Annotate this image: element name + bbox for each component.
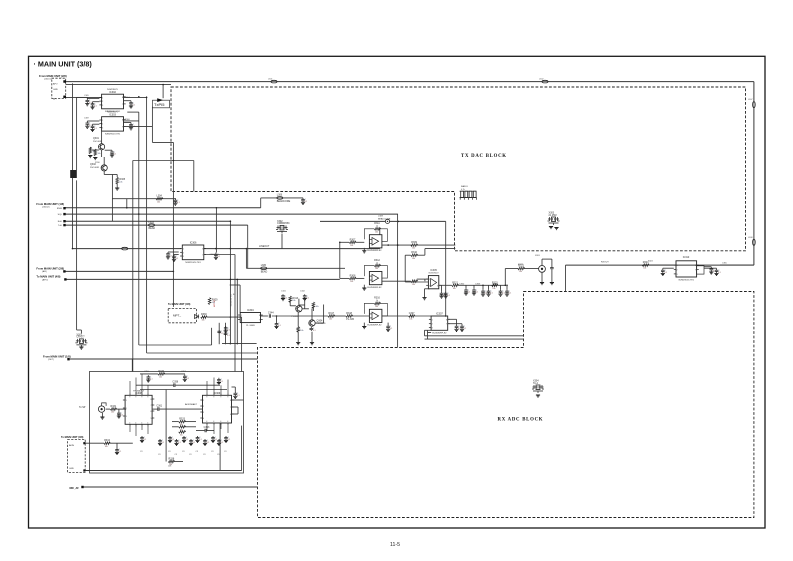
svg-text:Q304: Q304 [317,320,324,323]
svg-text:0.1: 0.1 [94,105,97,107]
svg-text:TA31136FNG: TA31136FNG [230,294,233,307]
svg-text:0.1: 0.1 [490,293,493,295]
svg-text:1: 1 [203,400,204,402]
svg-text:1k: 1k [376,300,378,302]
svg-text:IC306: IC306 [190,242,197,245]
svg-text:0.1: 0.1 [121,415,124,417]
svg-text:10k: 10k [292,300,295,302]
svg-text:L305: L305 [261,264,267,267]
svg-text:10k: 10k [180,435,183,437]
svg-text:BEADCORE: BEADCORE [277,200,291,203]
svg-text:RXOUT: RXOUT [601,262,609,264]
svg-text:From MAIN UNIT (1/8): From MAIN UNIT (1/8) [43,355,71,359]
svg-text:To MAIN UNIT (4/8): To MAIN UNIT (4/8) [168,303,190,306]
svg-text:0.1: 0.1 [502,293,505,295]
svg-text:R333: R333 [179,418,185,421]
svg-text:R330: R330 [201,313,207,316]
svg-text:2SC4081: 2SC4081 [90,167,100,169]
svg-text:3: 3 [183,256,184,258]
svg-text:BU4580RF-E2: BU4580RF-E2 [367,287,382,289]
svg-text:R321: R321 [452,281,458,284]
svg-text:9: 9 [147,397,148,399]
svg-text:C3: C3 [203,454,205,456]
svg-text:· MAIN UNIT (3/8): · MAIN UNIT (3/8) [34,59,93,68]
svg-text:0.1: 0.1 [114,154,117,156]
svg-text:R310: R310 [411,251,417,254]
svg-text:4: 4 [135,423,136,425]
svg-text:0.1: 0.1 [186,439,189,441]
svg-text:0.1: 0.1 [227,335,230,337]
svg-text:3: 3 [102,105,103,107]
svg-text:0.1: 0.1 [464,328,467,330]
svg-text:R307: R307 [350,238,356,241]
svg-text:9: 9 [129,397,130,399]
svg-text:0.1: 0.1 [221,442,224,444]
svg-text:2: 2 [677,270,678,272]
svg-text:1k: 1k [376,262,378,264]
svg-text:0.1: 0.1 [313,330,316,332]
svg-text:0.1: 0.1 [207,442,210,444]
svg-text:MPT_: MPT_ [173,314,181,318]
svg-text:0.1: 0.1 [221,381,224,383]
svg-text:GND: GND [53,89,58,91]
svg-text:AFI: AFI [53,98,57,101]
svg-text:0.1: 0.1 [186,378,189,380]
svg-text:CR-677: CR-677 [76,336,85,339]
svg-text:10k: 10k [519,271,522,273]
svg-text:AFO: AFO [53,83,58,86]
svg-text:10k: 10k [159,377,162,379]
svg-text:L303: L303 [149,221,155,224]
svg-text:10k: 10k [412,248,415,250]
svg-text:7: 7 [122,126,123,128]
svg-text:8: 8 [437,285,438,287]
svg-text:3: 3 [126,416,127,418]
svg-text:0.1: 0.1 [278,325,281,327]
svg-text:10k: 10k [119,181,122,183]
svg-text:10k: 10k [409,319,412,321]
svg-text:CDBM455C: CDBM455C [277,222,290,225]
svg-text:0.1: 0.1 [176,258,179,260]
svg-text:10k: 10k [350,245,353,247]
svg-text:6: 6 [151,411,152,413]
svg-text:L304: L304 [157,195,163,198]
svg-text:R309: R309 [411,241,417,244]
svg-text:0.1: 0.1 [94,128,97,130]
svg-text:C3: C3 [189,454,191,456]
svg-text:C3: C3 [175,454,177,456]
svg-text:0.1: 0.1 [170,255,173,257]
svg-text:C344: C344 [268,311,274,314]
svg-text:4: 4 [147,423,148,425]
svg-text:4: 4 [213,421,214,423]
svg-text:7: 7 [259,320,260,322]
svg-text:BEADCORE: BEADCORE [378,217,391,220]
svg-text:0.1: 0.1 [162,442,165,444]
svg-text:0.1: 0.1 [447,295,450,297]
svg-text:NJM2902V-TE1: NJM2902V-TE1 [679,279,695,281]
svg-text:1: 1 [429,279,430,281]
svg-text:IC304: IC304 [247,309,254,312]
svg-text:1: 1 [102,98,103,100]
svg-text:10k: 10k [202,320,205,322]
svg-text:From MAIN UNIT (2/8): From MAIN UNIT (2/8) [36,266,64,270]
svg-text:R318: R318 [346,312,352,315]
svg-text:TxPI5: TxPI5 [154,102,165,107]
svg-text:21.25M: 21.25M [549,214,557,217]
svg-text:C3: C3 [182,451,184,453]
svg-text:2: 2 [432,324,433,326]
svg-text:2: 2 [203,406,204,408]
svg-text:PL-340B: PL-340B [246,325,255,327]
svg-text:(DET): (DET) [48,359,54,361]
svg-text:9: 9 [206,397,207,399]
svg-text:10k: 10k [453,288,456,290]
svg-text:IC302: IC302 [109,91,116,94]
svg-text:10k: 10k [643,268,646,270]
svg-text:5: 5 [151,418,152,420]
svg-text:8: 8 [446,319,447,321]
svg-text:4: 4 [227,421,228,423]
svg-text:0.1: 0.1 [237,395,240,397]
svg-text:BU4580RF-E2: BU4580RF-E2 [367,250,382,252]
svg-text:10k: 10k [316,306,319,308]
svg-text:1k: 1k [376,226,378,228]
svg-text:10k: 10k [300,330,303,332]
svg-text:9: 9 [141,397,142,399]
svg-text:7: 7 [230,407,231,409]
svg-text:9: 9 [135,397,136,399]
svg-text:0.1: 0.1 [119,451,122,453]
svg-text:To MAIN UNIT (4/8): To MAIN UNIT (4/8) [36,275,60,279]
svg-text:8: 8 [151,399,152,401]
svg-text:C3: C3 [158,454,160,456]
svg-text:MPT 8V: MPT 8V [214,299,216,307]
svg-text:0.1: 0.1 [215,439,218,441]
svg-text:10k: 10k [157,201,160,203]
svg-text:TxD: TxD [58,225,62,227]
svg-text:9: 9 [227,397,228,399]
svg-text:C354: C354 [492,284,498,286]
svg-text:C347: C347 [409,312,415,315]
svg-text:0.1: 0.1 [305,201,308,203]
svg-text:R331: R331 [111,405,117,408]
svg-text:IC308: IC308 [135,392,142,395]
svg-text:10k: 10k [329,319,332,321]
svg-text:C361: C361 [156,405,162,408]
svg-text:2: 2 [102,101,103,103]
svg-text:C3: C3 [211,451,213,453]
svg-text:8: 8 [230,400,231,402]
svg-text:IC310: IC310 [683,256,690,259]
svg-text:To MAIN UNIT (4/8): To MAIN UNIT (4/8) [61,436,83,439]
svg-text:NJM2902V: NJM2902V [107,89,118,91]
svg-text:NJM2100V-TE1: NJM2100V-TE1 [185,262,201,264]
svg-text:8: 8 [202,249,203,251]
svg-text:4: 4 [141,423,142,425]
svg-text:4: 4 [206,421,207,423]
svg-text:C3: C3 [224,451,226,453]
svg-text:0.1: 0.1 [221,333,224,335]
svg-text:J301: J301 [535,255,541,257]
svg-text:C353: C353 [475,284,481,286]
svg-text:R308: R308 [350,274,356,277]
svg-text:1: 1 [183,249,184,251]
svg-text:From MAIN UNIT (1/8): From MAIN UNIT (1/8) [36,202,64,206]
svg-text:L306: L306 [277,194,283,197]
svg-text:9: 9 [213,397,214,399]
svg-text:10k: 10k [412,284,415,286]
svg-text:4.7k: 4.7k [461,189,465,191]
svg-text:R334: R334 [104,439,110,442]
svg-text:7: 7 [151,405,152,407]
svg-text:10k: 10k [492,288,495,290]
svg-text:0.1: 0.1 [227,329,230,331]
svg-text:2: 2 [241,320,242,322]
svg-text:8: 8 [695,265,696,267]
svg-text:10k: 10k [375,268,378,270]
svg-text:7: 7 [446,324,447,326]
svg-text:BU4580RF-E2: BU4580RF-E2 [432,333,447,335]
svg-text:0.1: 0.1 [476,292,479,294]
svg-text:4: 4 [203,418,204,420]
svg-text:10k: 10k [375,231,378,233]
svg-text:NJM2902V-TE1: NJM2902V-TE1 [105,134,121,136]
svg-text:0.1: 0.1 [199,439,202,441]
svg-text:2: 2 [183,252,184,254]
svg-text:IC307: IC307 [436,313,443,316]
svg-text:0.1: 0.1 [172,439,175,441]
svg-text:L309: L309 [378,216,384,218]
svg-text:BEAD: BEAD [261,270,268,273]
svg-text:BU4580RF-E2: BU4580RF-E2 [367,325,382,327]
svg-text:9: 9 [220,397,221,399]
svg-text:10k: 10k [98,153,101,155]
svg-text:1: 1 [241,315,242,317]
svg-text:IC309: IC309 [214,392,221,395]
svg-text:Q301: Q301 [93,137,100,140]
svg-text:3: 3 [203,412,204,414]
svg-text:BEAD: BEAD [149,227,156,230]
svg-text:TX DAC BLOCK: TX DAC BLOCK [461,154,507,159]
svg-text:2: 2 [126,408,127,410]
svg-text:1: 1 [677,265,678,267]
svg-text:7: 7 [695,270,696,272]
svg-text:C3: C3 [140,451,142,453]
svg-text:0.1: 0.1 [177,202,180,204]
svg-text:10k: 10k [350,281,353,283]
svg-text:C3: C3 [217,454,219,456]
svg-text:(J3202): (J3202) [42,207,50,209]
svg-text:0.1: 0.1 [718,272,721,274]
svg-text:TA-2: TA-2 [533,382,539,385]
svg-text:0.1: 0.1 [390,328,393,330]
svg-text:0.1: 0.1 [193,442,196,444]
svg-text:0.1: 0.1 [133,104,136,106]
svg-text:0.1: 0.1 [509,293,512,295]
svg-text:PL-305: PL-305 [346,318,354,321]
svg-text:C352: C352 [459,284,465,286]
svg-text:MIC_AF: MIC_AF [70,487,80,490]
svg-text:(J3201): (J3201) [44,79,52,81]
svg-text:RX ADC BLOCK: RX ADC BLOCK [498,418,544,423]
svg-text:10k: 10k [111,412,114,414]
svg-text:AFIN: AFIN [69,444,74,447]
svg-text:(AFI): (AFI) [42,270,47,273]
svg-text:0.1: 0.1 [468,292,471,294]
svg-text:1: 1 [126,400,127,402]
svg-text:R322: R322 [518,264,524,266]
svg-text:3: 3 [432,328,433,330]
svg-text:11-5: 11-5 [390,542,400,548]
svg-text:0.1: 0.1 [144,439,147,441]
svg-text:RSSI: RSSI [57,208,62,210]
svg-text:0.1: 0.1 [664,272,667,274]
svg-text:8: 8 [122,97,123,99]
svg-text:IC305: IC305 [430,269,437,272]
svg-text:1: 1 [102,120,103,122]
svg-text:10k: 10k [375,306,378,308]
svg-text:R338: R338 [169,458,175,461]
svg-text:IC303: IC303 [109,113,116,116]
svg-text:7: 7 [202,255,203,257]
svg-text:GND: GND [69,468,74,470]
svg-text:8: 8 [122,119,123,121]
svg-text:RxD: RxD [58,221,63,223]
svg-text:0.1: 0.1 [306,297,309,299]
svg-text:2: 2 [429,285,430,287]
svg-text:0.1: 0.1 [228,439,231,441]
svg-text:C358: C358 [172,381,178,384]
svg-text:C3: C3 [196,451,198,453]
svg-text:10k: 10k [412,258,415,260]
svg-text:To SP: To SP [79,406,86,409]
svg-text:SQL: SQL [58,214,63,216]
svg-text:LINEOUT: LINEOUT [259,245,270,248]
svg-text:10k: 10k [105,446,108,448]
svg-text:NJM2902V: NJM2902V [429,273,440,275]
svg-text:3: 3 [677,274,678,276]
svg-text:NJM2902V: NJM2902V [107,112,118,114]
svg-text:1: 1 [432,319,433,321]
svg-text:0.1: 0.1 [285,297,288,299]
svg-text:RA301: RA301 [461,185,468,188]
svg-text:R332: R332 [158,370,164,373]
svg-text:6: 6 [230,414,231,416]
svg-text:(AFO): (AFO) [42,278,48,281]
svg-text:0.1: 0.1 [150,379,153,381]
svg-text:4: 4 [129,423,130,425]
svg-text:8: 8 [259,315,260,317]
svg-text:From MAIN UNIT (2/8): From MAIN UNIT (2/8) [39,74,67,78]
svg-text:2: 2 [102,124,103,126]
svg-text:R317: R317 [328,312,334,315]
svg-text:C3: C3 [168,451,170,453]
svg-text:3: 3 [102,127,103,129]
svg-text:0.1: 0.1 [178,442,181,444]
svg-text:4: 4 [220,421,221,423]
svg-text:7: 7 [122,104,123,106]
svg-text:0.1: 0.1 [218,256,221,258]
svg-text:AK5358AET: AK5358AET [185,403,198,406]
